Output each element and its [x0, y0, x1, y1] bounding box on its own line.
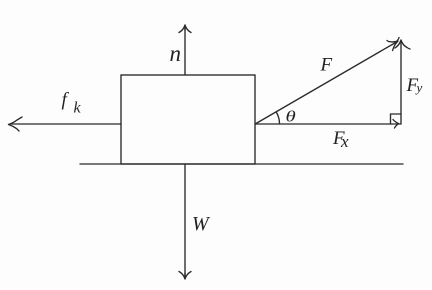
svg-text:F: F [320, 55, 333, 76]
svg-text:k: k [74, 100, 82, 117]
angle theta arc [276, 112, 279, 123]
F resultant arrow shaft [256, 42, 397, 124]
normal force n arrowhead [179, 25, 191, 33]
friction f_k arrow shaft [10, 123, 121, 125]
svg-text:x: x [340, 132, 349, 151]
normal force n arrow shaft [184, 26, 186, 75]
svg-text:θ: θ [286, 108, 296, 126]
F_x arrowhead [393, 120, 399, 129]
F_y component arrow shaft [400, 42, 402, 124]
weight W arrowhead [179, 272, 191, 280]
block (rectangle) [121, 75, 255, 164]
svg-text:y: y [415, 80, 423, 95]
friction f_k arrowhead [9, 117, 23, 131]
F_x component arrow shaft [256, 123, 402, 125]
F_y arrowhead [395, 40, 410, 49]
ground line [80, 163, 403, 165]
svg-text:n: n [170, 41, 182, 66]
weight W arrow shaft [184, 164, 186, 277]
F arrowhead [387, 38, 399, 51]
right-angle mark [391, 114, 402, 124]
svg-text:W: W [192, 213, 211, 235]
